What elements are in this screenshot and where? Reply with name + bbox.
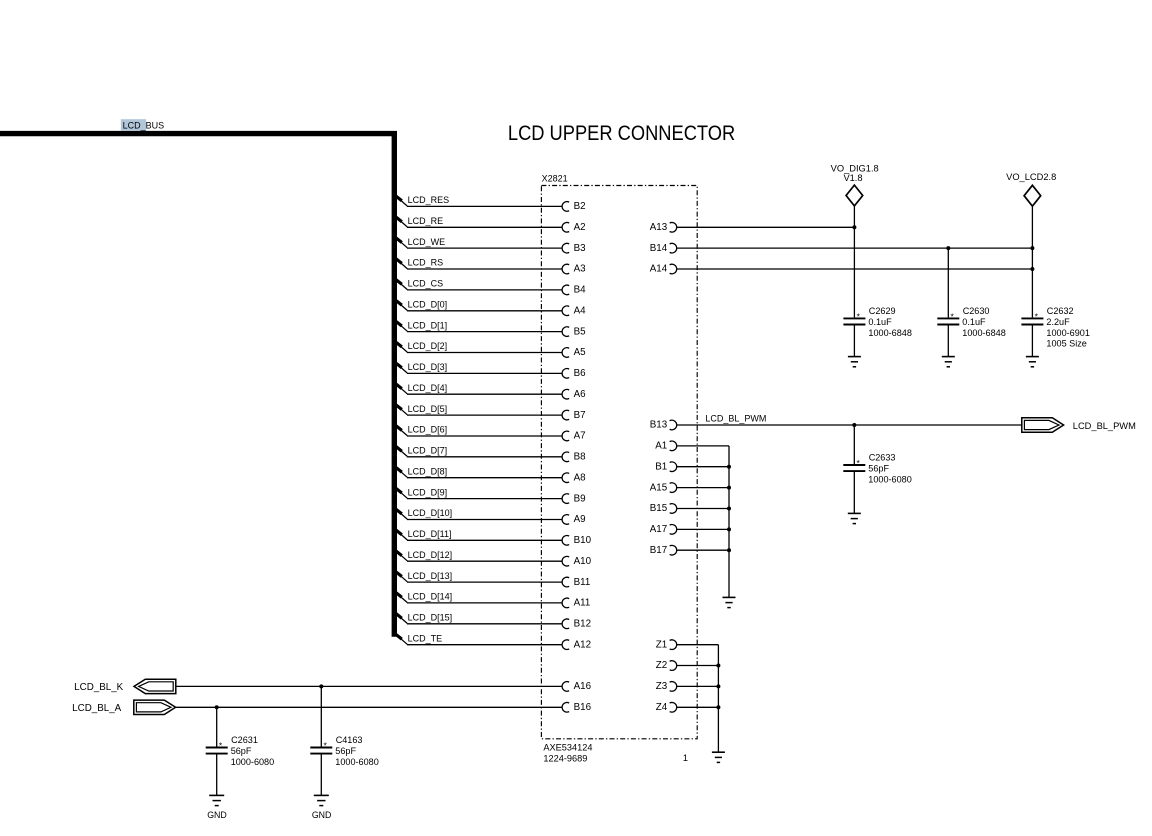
junction A13/V1.8 (852, 225, 856, 229)
svg-text:A7: A7 (574, 431, 586, 442)
svg-text:LCD_D[2]: LCD_D[2] (408, 341, 448, 351)
junction A14/VO_LCD2.8 (1030, 267, 1034, 271)
svg-text:A2: A2 (574, 222, 586, 233)
svg-text:0.1uF: 0.1uF (962, 317, 986, 327)
svg-text:C2631: C2631 (231, 735, 258, 745)
wire C2629 to ground (853, 325, 855, 357)
wire LCD_D[6] from bus to pin A7 (395, 425, 407, 436)
svg-text:C2629: C2629 (869, 306, 896, 316)
svg-text:LCD_D[10]: LCD_D[10] (408, 508, 453, 518)
junction LCD_BL_A/C2631 (215, 705, 219, 709)
svg-text:C2633: C2633 (869, 452, 896, 462)
wire LCD_D[2] from bus to pin A5 (395, 342, 407, 353)
svg-text:LCD_D[9]: LCD_D[9] (408, 487, 448, 497)
ground GND below C2631 (209, 794, 224, 796)
svg-text:B7: B7 (574, 410, 586, 421)
ground below C2632 (1026, 356, 1039, 358)
svg-text:LCD_TE: LCD_TE (408, 633, 443, 643)
junction B14/VO_LCD2.8 (1030, 246, 1034, 250)
svg-text:LCD_BL_PWM: LCD_BL_PWM (705, 414, 766, 424)
junction Z2/ground rail (716, 664, 720, 668)
svg-text:1224-9689: 1224-9689 (543, 754, 587, 764)
junction B13/C2633 (852, 423, 856, 427)
svg-text:A14: A14 (650, 264, 668, 275)
svg-text:A13: A13 (650, 222, 668, 233)
svg-text:1000-6848: 1000-6848 (962, 328, 1006, 338)
svg-text:C2630: C2630 (963, 306, 990, 316)
svg-text:B1: B1 (655, 461, 667, 472)
svg-text:56pF: 56pF (335, 746, 356, 756)
wire C4163 to ground (320, 754, 322, 796)
capacitor C2629 0.1uF (843, 317, 865, 319)
svg-text:1000-6080: 1000-6080 (335, 757, 379, 767)
ground rail vertical for A1..B17 (728, 446, 730, 598)
svg-text:LCD_D[7]: LCD_D[7] (408, 446, 448, 456)
wire LCD_BL_K to C4163 (320, 686, 322, 746)
svg-text:A8: A8 (574, 472, 587, 483)
wire C2633 to ground (853, 471, 855, 513)
svg-text:1000-6080: 1000-6080 (231, 757, 275, 767)
wire LCD_WE from bus to pin B3 (395, 237, 407, 248)
svg-text:LCD_CS: LCD_CS (408, 279, 444, 289)
svg-text:A16: A16 (574, 681, 592, 692)
svg-text:B17: B17 (650, 545, 667, 556)
svg-text:A12: A12 (574, 639, 591, 650)
pin A16 (562, 682, 569, 692)
svg-text:C2632: C2632 (1047, 306, 1074, 316)
capacitor C2633 56pF (843, 464, 865, 466)
svg-text:B4: B4 (574, 285, 587, 296)
svg-text:A5: A5 (574, 347, 587, 358)
svg-text:2.2uF: 2.2uF (1046, 317, 1070, 327)
capacitor C4163 56pF (310, 747, 332, 749)
svg-text:LCD_BL_A: LCD_BL_A (72, 703, 121, 714)
wire LCD_BL_A to pin B16 (176, 706, 563, 708)
svg-text:B11: B11 (574, 577, 591, 588)
capacitor C2631 56pF (206, 747, 228, 749)
svg-text:V1.8: V1.8 (843, 173, 862, 183)
junction B17/ground rail (727, 548, 731, 552)
wire LCD_RES from bus to pin B2 (395, 196, 407, 207)
svg-text:B6: B6 (574, 368, 587, 379)
wire LCD_BL_K to pin A16 (176, 685, 563, 687)
svg-text:B9: B9 (574, 493, 586, 504)
junction A15/ground rail (727, 486, 731, 490)
svg-text:56pF: 56pF (868, 464, 889, 474)
ground rail vertical for Z1..Z4 (717, 645, 719, 753)
svg-text:LCD_D[3]: LCD_D[3] (408, 362, 448, 372)
svg-text:B2: B2 (574, 201, 586, 212)
svg-text:LCD_D[0]: LCD_D[0] (408, 299, 448, 309)
svg-text:1: 1 (683, 753, 688, 763)
svg-text:LCD_RES: LCD_RES (408, 195, 450, 205)
svg-text:LCD_D[6]: LCD_D[6] (408, 425, 448, 435)
wire LCD_D[9] from bus to pin B9 (395, 488, 407, 499)
svg-text:Z2: Z2 (656, 660, 667, 671)
svg-text:A6: A6 (574, 389, 587, 400)
junction B1/ground rail (727, 465, 731, 469)
wire LCD_D[14] from bus to pin A11 (395, 592, 407, 603)
svg-text:B12: B12 (574, 619, 591, 630)
wire B14 branch to C2630 (947, 248, 949, 317)
bus LCD_BUS vertical segment (392, 134, 397, 637)
wire LCD_D[10] from bus to pin A9 (395, 509, 407, 519)
svg-text:1005 Size: 1005 Size (1046, 339, 1086, 349)
svg-text:LCD_BL_K: LCD_BL_K (74, 682, 123, 693)
port LCD_BL_K (input, left) (134, 679, 176, 693)
svg-text:1000-6848: 1000-6848 (868, 328, 912, 338)
svg-text:B14: B14 (650, 243, 668, 254)
svg-text:LCD_D[14]: LCD_D[14] (408, 592, 453, 602)
wire LCD_D[13] from bus to pin B11 (395, 571, 407, 582)
wire C2630 to ground (947, 325, 949, 357)
wire V1.8 stem to C2629 (853, 206, 855, 318)
svg-text:B15: B15 (650, 503, 668, 514)
svg-text:AXE534124: AXE534124 (543, 742, 592, 752)
ground below C2633 (848, 512, 861, 514)
svg-text:LCD_RS: LCD_RS (408, 258, 444, 268)
junction B14/C2630 (946, 246, 950, 250)
wire LCD_D[8] from bus to pin A8 (395, 467, 407, 478)
svg-text:LCD UPPER CONNECTOR: LCD UPPER CONNECTOR (508, 121, 735, 145)
svg-text:A11: A11 (574, 598, 591, 609)
svg-text:B13: B13 (650, 420, 668, 431)
junction B15/ground rail (727, 507, 731, 511)
junction Z4/ground rail (716, 705, 720, 709)
junction A17/ground rail (727, 527, 731, 531)
port LCD_BL_PWM (output, right) (1022, 418, 1064, 432)
svg-text:A1: A1 (655, 441, 667, 452)
svg-text:A10: A10 (574, 556, 592, 567)
svg-text:GND: GND (207, 810, 227, 820)
svg-text:1000-6080: 1000-6080 (868, 474, 912, 484)
net label LCD_BUS highlight (121, 119, 146, 131)
connector X2821 dashed outline (541, 186, 697, 739)
svg-text:LCD_D[13]: LCD_D[13] (408, 571, 453, 581)
svg-text:VO_DIG1.8: VO_DIG1.8 (831, 164, 879, 174)
svg-text:LCD_BUS: LCD_BUS (123, 121, 165, 131)
svg-text:LCD_D[11]: LCD_D[11] (408, 529, 452, 539)
ground below C2629 (848, 356, 861, 358)
svg-text:A17: A17 (650, 524, 667, 535)
ground below Z1..Z4 rail (712, 751, 725, 753)
svg-text:A9: A9 (574, 514, 586, 525)
wire LCD_RE from bus to pin A2 (395, 216, 407, 227)
svg-text:B16: B16 (574, 702, 592, 713)
svg-text:1000-6901: 1000-6901 (1046, 328, 1090, 338)
wire LCD_D[0] from bus to pin A4 (395, 300, 407, 311)
wire C2631 to ground (216, 754, 218, 796)
ground GND below C4163 (314, 794, 329, 796)
ground below A1..B17 rail (723, 596, 736, 598)
wire LCD_TE from bus to pin A12 (395, 634, 407, 645)
wire LCD_CS from bus to pin B4 (395, 279, 407, 290)
svg-text:GND: GND (312, 810, 332, 820)
svg-text:B10: B10 (574, 535, 592, 546)
svg-text:VO_LCD2.8: VO_LCD2.8 (1006, 172, 1056, 182)
wire LCD_BL_A to C2631 (216, 707, 218, 746)
svg-text:Z3: Z3 (656, 681, 668, 692)
svg-text:LCD_D[5]: LCD_D[5] (408, 404, 448, 414)
svg-text:A15: A15 (650, 482, 668, 493)
svg-text:Z1: Z1 (656, 639, 667, 650)
svg-text:LCD_D[12]: LCD_D[12] (408, 550, 453, 560)
wire LCD_D[1] from bus to pin B5 (395, 321, 407, 332)
wire LCD_D[11] from bus to pin B10 (395, 529, 407, 540)
port LCD_BL_A (output, right) (134, 700, 176, 714)
wire C2632 to ground (1031, 325, 1033, 357)
junction LCD_BL_K/C4163 (319, 684, 323, 688)
svg-text:X2821: X2821 (542, 173, 568, 183)
pin B16 (562, 702, 569, 712)
capacitor C2632 2.2uF (1021, 317, 1043, 319)
wire LCD_D[5] from bus to pin B7 (395, 404, 407, 415)
svg-text:LCD_WE: LCD_WE (408, 237, 446, 247)
svg-text:LCD_D[15]: LCD_D[15] (408, 613, 453, 623)
wire LCD_D[3] from bus to pin B6 (395, 363, 407, 374)
wire LCD_RS from bus to pin A3 (395, 258, 407, 269)
ground below C2630 (942, 356, 955, 358)
capacitor C2630 0.1uF (937, 317, 959, 319)
svg-text:B3: B3 (574, 243, 587, 254)
svg-text:0.1uF: 0.1uF (868, 317, 892, 327)
svg-text:B8: B8 (574, 452, 587, 463)
wire VO_LCD2.8 stem to C2632 (1031, 206, 1033, 317)
svg-text:A4: A4 (574, 305, 587, 316)
wire LCD_D[15] from bus to pin B12 (395, 613, 407, 624)
svg-text:Z4: Z4 (656, 702, 668, 713)
svg-text:LCD_D[4]: LCD_D[4] (408, 383, 448, 393)
wire LCD_D[7] from bus to pin B8 (395, 446, 407, 457)
svg-text:B5: B5 (574, 326, 587, 337)
wire LCD_D[4] from bus to pin A6 (395, 383, 407, 394)
svg-text:56pF: 56pF (231, 746, 252, 756)
svg-text:C4163: C4163 (336, 735, 363, 745)
svg-text:A3: A3 (574, 264, 587, 275)
wire LCD_D[12] from bus to pin A10 (395, 550, 407, 561)
svg-text:LCD_BL_PWM: LCD_BL_PWM (1073, 421, 1136, 431)
junction Z3/ground rail (716, 684, 720, 688)
wire B13 to C2633 (853, 425, 855, 464)
svg-text:LCD_D[8]: LCD_D[8] (408, 466, 448, 476)
svg-text:LCD_D[1]: LCD_D[1] (408, 320, 448, 330)
svg-text:LCD_RE: LCD_RE (408, 216, 444, 226)
bus LCD_BUS horizontal segment (0, 131, 397, 136)
